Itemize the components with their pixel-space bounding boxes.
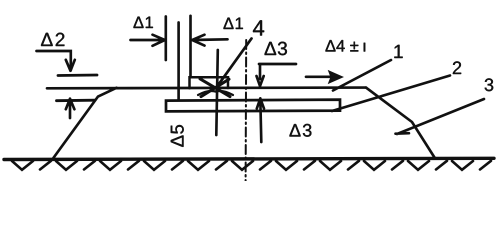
vertical line A (left lead edge) — [164, 17, 167, 61]
label 1 — [394, 45, 402, 58]
ground hatching — [12, 161, 491, 170]
label Δ4±ı — [326, 40, 366, 51]
dim Δ3 upper: shelf and down arrow — [257, 64, 297, 86]
label Δ3 lower — [290, 124, 312, 137]
dim Δ2 down arrow — [66, 60, 75, 71]
label Δ3 upper — [265, 42, 287, 56]
leader of label 3 — [396, 99, 485, 134]
left slope of base — [53, 88, 117, 159]
dim Δ1 left arrow — [131, 35, 165, 46]
label 4 — [253, 20, 264, 35]
plate (component 1) — [166, 100, 340, 112]
label 3 — [485, 78, 494, 91]
vertical line C (die left edge extension) — [189, 16, 192, 77]
ground line — [4, 158, 494, 159]
right slope of base — [366, 88, 435, 158]
label Δ2 — [41, 33, 64, 46]
die (crystal) — [190, 77, 229, 88]
label 2 — [453, 61, 461, 74]
vertical line B (middle lead edge) — [177, 23, 180, 100]
leader of label 1 — [333, 60, 391, 91]
label Δ5 (rotated) — [171, 125, 184, 147]
label Δ1 left — [134, 17, 153, 28]
vertical line D (through solder joint) — [216, 50, 218, 135]
base top surface line — [47, 86, 366, 89]
dim Δ2 leader shelf — [37, 51, 71, 70]
dim Δ4 direction arrow — [306, 75, 332, 78]
dim Δ2 up arrow — [66, 99, 75, 118]
centerline (dash-dot axis) — [245, 40, 248, 181]
dim Δ3 lower: up arrow — [257, 98, 264, 142]
dim Δ1 right arrow — [192, 35, 227, 46]
extension tick die-top level — [58, 74, 97, 77]
solder fillet X — [198, 79, 233, 97]
extension tick plate-top level — [57, 99, 96, 102]
leader of label 2 — [332, 76, 450, 112]
leader of label 4 — [216, 39, 252, 89]
label Δ1 right — [224, 18, 243, 29]
